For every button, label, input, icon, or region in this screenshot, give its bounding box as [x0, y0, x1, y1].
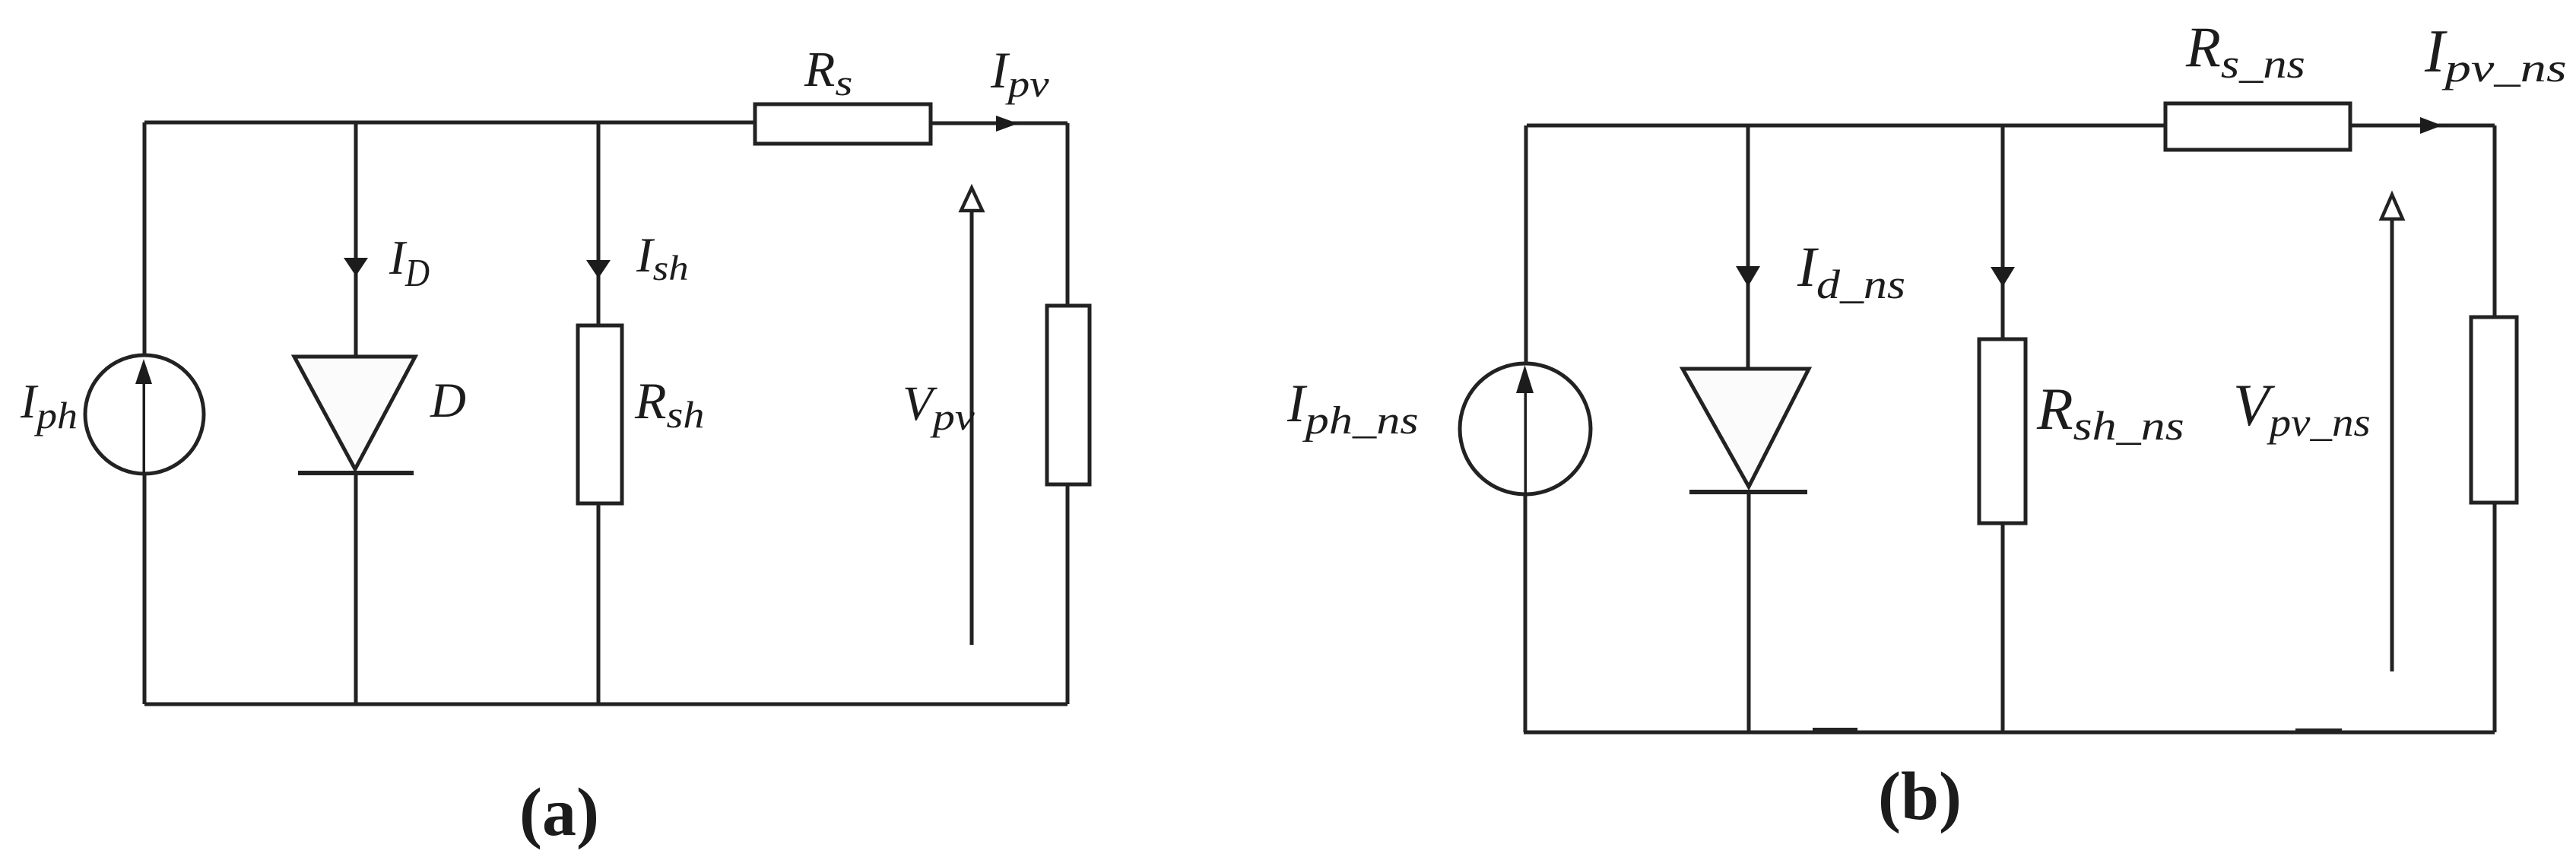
svg-text:(a): (a) — [519, 775, 599, 850]
svg-text:D: D — [430, 373, 466, 428]
svg-text:(b): (b) — [1878, 759, 1962, 834]
